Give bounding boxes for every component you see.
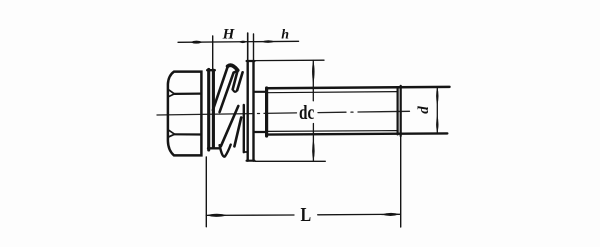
thread start line: [265, 88, 268, 136]
spring washer bottom cap: [220, 145, 231, 157]
dc top extension line: [254, 59, 325, 61]
svg-text:h: h: [281, 28, 289, 43]
d dimension line: [436, 87, 438, 134]
dc dimension line upper: [312, 61, 314, 101]
spring washer right bottom stub: [244, 151, 248, 153]
thread major bottom edge: [267, 133, 448, 134]
flat washer left edge: [246, 61, 248, 161]
dc bottom extension line: [255, 160, 325, 162]
flat washer left extension line: [247, 33, 249, 61]
arrow d up: [436, 87, 438, 105]
hex head lower chamfer notch: [169, 130, 175, 137]
flat washer top edge: [247, 60, 255, 62]
thread root bottom line: [268, 130, 398, 133]
hex head outline: [168, 72, 202, 156]
L dimension line right part: [318, 213, 400, 216]
arrow dc up: [312, 61, 315, 84]
bolt tip chamfer line: [397, 87, 399, 134]
thread root top line: [268, 92, 398, 93]
flat washer bottom edge: [247, 160, 255, 162]
flat washer right extension line: [253, 34, 255, 61]
spring washer left edge: [212, 70, 215, 147]
spring washer lower front limb outer line: [221, 106, 238, 146]
spring washer top cap inner edge: [234, 70, 238, 72]
shank neck bottom edge: [255, 131, 267, 133]
arrow h: [262, 40, 276, 43]
spring washer top step: [207, 69, 215, 71]
L left extension line: [205, 157, 207, 227]
spring washer upper back limb left line: [233, 71, 238, 90]
arrow d down: [436, 115, 438, 133]
spring washer bottom stub: [208, 147, 219, 149]
svg-text:dc: dc: [299, 101, 314, 124]
centerline: [157, 111, 410, 115]
svg-text:H: H: [222, 27, 236, 43]
arrow H right: [239, 41, 247, 44]
thread major top edge: [267, 87, 450, 88]
arrow H left: [190, 41, 203, 44]
spring washer lower front limb inner line: [234, 118, 241, 147]
spring washer upper back limb right line: [237, 72, 242, 90]
dimension H extension line: [212, 36, 214, 72]
spring washer upper front limb inner line: [220, 73, 234, 112]
hex head upper chamfer line: [174, 92, 201, 95]
spring washer upper back limb lower cap: [233, 89, 238, 92]
hex head upper chamfer notch: [169, 90, 175, 97]
spring washer top cap: [228, 65, 238, 70]
hex head lower chamfer line: [175, 133, 202, 135]
bolt tip end face: [400, 86, 402, 136]
dc dimension line lower: [312, 124, 314, 162]
svg-text:L: L: [301, 203, 312, 225]
spring washer left bearing line: [207, 69, 210, 150]
L right extension line: [400, 136, 402, 227]
L dimension line left part: [206, 214, 294, 216]
arrow L right: [382, 213, 400, 216]
shank neck top edge: [255, 91, 267, 93]
spring washer right edge: [243, 105, 245, 152]
flat washer right edge: [252, 61, 254, 161]
arrow dc down: [312, 139, 315, 161]
spring washer upper front limb outer line: [213, 66, 228, 110]
svg-text:d: d: [416, 106, 432, 114]
arrow L left: [207, 214, 228, 217]
top dimension line: [178, 41, 299, 42]
